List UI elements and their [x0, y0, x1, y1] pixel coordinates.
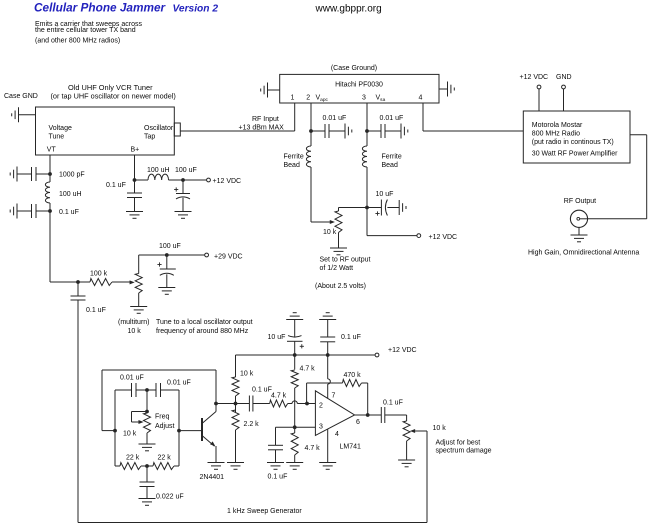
- svg-text:www.gbppr.org: www.gbppr.org: [315, 4, 382, 15]
- svg-text:RF Output: RF Output: [564, 198, 596, 205]
- svg-text:10 uF: 10 uF: [268, 334, 286, 341]
- svg-text:Ferrite: Ferrite: [382, 154, 402, 161]
- svg-text:Set to RF output: Set to RF output: [320, 257, 371, 264]
- svg-text:2.2 k: 2.2 k: [244, 421, 260, 428]
- svg-text:the entire cellular tower TX b: the entire cellular tower TX band: [35, 27, 136, 34]
- svg-text:2: 2: [319, 403, 323, 410]
- svg-text:Adjust for best: Adjust for best: [436, 440, 481, 447]
- svg-text:800 MHz Radio: 800 MHz Radio: [532, 131, 580, 138]
- svg-text:Tap: Tap: [144, 134, 155, 141]
- svg-text:1 kHz Sweep Generator: 1 kHz Sweep Generator: [227, 508, 302, 515]
- svg-text:Ferrite: Ferrite: [284, 154, 304, 161]
- svg-text:0.01 uF: 0.01 uF: [167, 380, 191, 387]
- svg-text:+12 VDC: +12 VDC: [213, 178, 242, 185]
- svg-text:4.7 k: 4.7 k: [305, 445, 321, 452]
- svg-text:Motorola Mostar: Motorola Mostar: [532, 122, 583, 129]
- svg-text:10 k: 10 k: [128, 328, 142, 335]
- svg-text:of 1/2 Watt: of 1/2 Watt: [320, 265, 354, 272]
- svg-text:4.7 k: 4.7 k: [271, 393, 287, 400]
- svg-text:Bead: Bead: [382, 162, 398, 169]
- svg-text:10 k: 10 k: [123, 431, 137, 438]
- svg-text:(Case Ground): (Case Ground): [331, 65, 377, 72]
- svg-text:Cellular Phone Jammer: Cellular Phone Jammer: [34, 1, 167, 15]
- svg-text:Bead: Bead: [284, 162, 300, 169]
- svg-text:4.7 k: 4.7 k: [300, 366, 316, 373]
- svg-text:4: 4: [419, 95, 423, 102]
- svg-text:100 k: 100 k: [90, 271, 108, 278]
- svg-text:(put radio in continous TX): (put radio in continous TX): [532, 139, 614, 146]
- svg-text:470 k: 470 k: [344, 372, 362, 379]
- svg-text:+12 VDC: +12 VDC: [429, 234, 458, 241]
- svg-text:22 k: 22 k: [158, 455, 172, 462]
- svg-text:+12 VDC: +12 VDC: [388, 347, 417, 354]
- svg-text:(About 2.5 volts): (About 2.5 volts): [315, 283, 366, 290]
- svg-text:10 k: 10 k: [433, 425, 447, 432]
- svg-text:RF Input: RF Input: [252, 116, 279, 123]
- svg-text:10 uF: 10 uF: [376, 191, 394, 198]
- svg-text:100 uF: 100 uF: [159, 243, 181, 250]
- svg-text:2N4401: 2N4401: [200, 474, 225, 481]
- svg-text:0.1 uF: 0.1 uF: [383, 400, 403, 407]
- svg-text:100 uH: 100 uH: [59, 191, 82, 198]
- svg-text:0.01 uF: 0.01 uF: [323, 115, 347, 122]
- svg-text:3: 3: [319, 424, 323, 431]
- svg-text:frequency of around 880 MHz: frequency of around 880 MHz: [156, 328, 249, 335]
- svg-text:10 k: 10 k: [240, 371, 254, 378]
- svg-text:Version 2: Version 2: [173, 4, 219, 15]
- svg-text:0.1 uF: 0.1 uF: [252, 387, 272, 394]
- svg-text:Voltage: Voltage: [49, 125, 72, 132]
- svg-text:GND: GND: [556, 74, 572, 81]
- svg-text:+13 dBm MAX: +13 dBm MAX: [239, 125, 285, 132]
- svg-text:Tune to a local oscillator out: Tune to a local oscillator output: [156, 319, 253, 326]
- svg-text:VT: VT: [47, 147, 57, 154]
- svg-text:6: 6: [356, 419, 360, 426]
- svg-text:Case GND: Case GND: [4, 93, 38, 100]
- svg-text:spectrum damage: spectrum damage: [436, 448, 492, 455]
- svg-text:Tune: Tune: [49, 134, 65, 141]
- svg-text:100 uH: 100 uH: [147, 167, 170, 174]
- svg-text:2: 2: [306, 95, 310, 102]
- svg-text:0.01 uF: 0.01 uF: [120, 375, 144, 382]
- svg-text:1000 pF: 1000 pF: [59, 172, 85, 179]
- svg-text:22 k: 22 k: [126, 455, 140, 462]
- svg-text:+29 VDC: +29 VDC: [214, 254, 243, 261]
- svg-text:3: 3: [362, 95, 366, 102]
- svg-text:0.1 uF: 0.1 uF: [106, 182, 126, 189]
- svg-text:0.1 uF: 0.1 uF: [341, 334, 361, 341]
- svg-text:High Gain, Omnidirectional Ant: High Gain, Omnidirectional Antenna: [528, 250, 639, 257]
- svg-text:B+: B+: [131, 147, 140, 154]
- svg-text:0.1 uF: 0.1 uF: [268, 474, 288, 481]
- svg-text:0.1 uF: 0.1 uF: [59, 209, 79, 216]
- svg-text:(or tap UHF oscillator on newe: (or tap UHF oscillator on newer model): [51, 92, 176, 101]
- svg-text:30 Watt RF Power Amplifier: 30 Watt RF Power Amplifier: [532, 151, 618, 158]
- svg-text:Oscillator: Oscillator: [144, 125, 174, 132]
- svg-text:0.01 uF: 0.01 uF: [380, 115, 404, 122]
- svg-text:1: 1: [291, 95, 295, 102]
- svg-text:4: 4: [335, 431, 339, 438]
- svg-text:0.022 uF: 0.022 uF: [156, 494, 184, 501]
- svg-text:(multiturn): (multiturn): [118, 319, 150, 326]
- svg-text:Hitachi PF0030: Hitachi PF0030: [335, 82, 383, 89]
- svg-text:Freq: Freq: [155, 414, 170, 421]
- svg-text:Adjust: Adjust: [155, 423, 175, 430]
- svg-text:7: 7: [332, 393, 336, 400]
- svg-text:+12 VDC: +12 VDC: [520, 74, 549, 81]
- svg-text:0.1 uF: 0.1 uF: [86, 307, 106, 314]
- svg-text:100 uF: 100 uF: [175, 167, 197, 174]
- svg-text:LM741: LM741: [340, 444, 362, 451]
- svg-text:(and other 800 MHz radios): (and other 800 MHz radios): [35, 38, 120, 45]
- svg-text:10 k: 10 k: [323, 229, 337, 236]
